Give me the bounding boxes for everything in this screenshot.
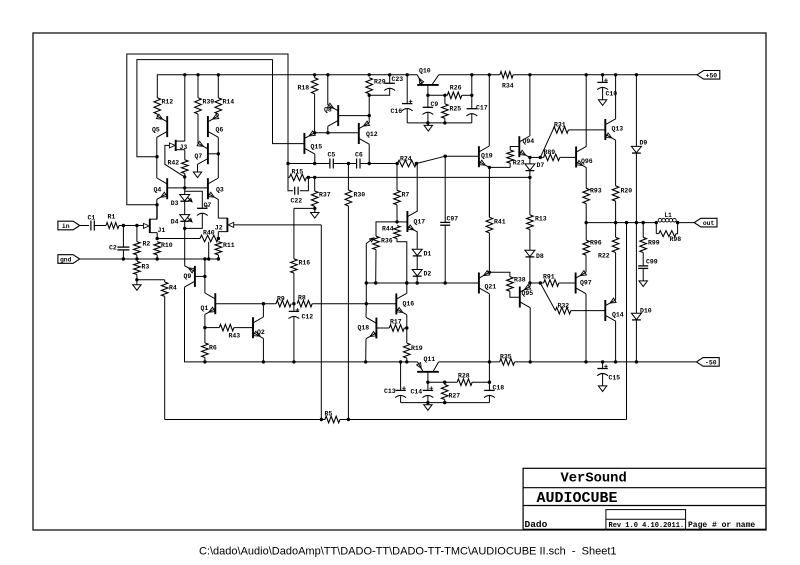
svg-text:R27: R27 xyxy=(449,393,461,400)
svg-text:J2: J2 xyxy=(215,225,223,232)
wire bracket to R16 xyxy=(293,208,295,258)
svg-text:R8: R8 xyxy=(298,295,306,302)
wire R93 to out rail xyxy=(585,204,587,223)
svg-text:Q13: Q13 xyxy=(612,125,624,132)
wire feedback loop W1 (input node to wire A/B column) xyxy=(127,54,288,205)
node Q8 collector xyxy=(326,131,329,134)
resistor R11 xyxy=(215,242,222,255)
junction on lower rail xyxy=(488,360,491,363)
wire Q17 collector to R24 right xyxy=(416,164,418,211)
resistor R24 xyxy=(398,160,417,167)
jfet J2 xyxy=(226,218,228,232)
junction on lower rail xyxy=(405,360,408,363)
junction on wire Y xyxy=(444,281,447,284)
ground below Q7 xyxy=(193,172,201,178)
junction on +50 bus xyxy=(326,73,329,76)
wire R1 to J1 gate xyxy=(119,225,143,227)
wire Q97 collector to rail xyxy=(585,294,587,362)
wire Q10 base xyxy=(427,85,429,95)
resistor R25 xyxy=(444,95,446,104)
wire D7 to wire B xyxy=(529,171,531,178)
capacitor C23 xyxy=(389,75,391,83)
wire C1 to R1 xyxy=(94,225,106,227)
node Q8 base / R29 bottom xyxy=(368,114,371,117)
svg-text:D8: D8 xyxy=(536,253,544,260)
wire R13 to D8 xyxy=(529,230,531,251)
node D7 cathode wire B xyxy=(528,176,531,179)
svg-text:R3: R3 xyxy=(142,264,150,271)
diode D4 xyxy=(180,215,190,221)
resistor R89 xyxy=(544,154,560,161)
svg-text:R38: R38 xyxy=(514,277,526,284)
wire Q21 collector to rail xyxy=(488,294,490,362)
wire Q7 base xyxy=(208,153,218,155)
svg-text:R9: R9 xyxy=(277,296,285,303)
transistor Q11 inline on rail xyxy=(418,362,424,372)
wire output feedback column xyxy=(626,223,628,420)
junction on -50 rail xyxy=(529,360,532,363)
svg-text:R14: R14 xyxy=(223,99,235,106)
capacitor C9 xyxy=(427,95,429,107)
node R42 bottom xyxy=(183,175,186,178)
wire R96 top xyxy=(585,223,587,241)
transistor Q97 xyxy=(575,273,577,294)
node Q19 emitter xyxy=(488,166,491,169)
junction on wire Y xyxy=(405,281,408,284)
node Q9 base xyxy=(203,275,206,278)
title block rev cell separator xyxy=(606,518,686,520)
wire bias filter ground row xyxy=(401,402,490,404)
capacitor C22 parallel loop xyxy=(288,177,293,190)
node Q17 base / R7 bottom xyxy=(395,220,398,223)
node R27 top xyxy=(443,381,446,384)
wire Q16 emitter xyxy=(406,315,408,343)
junction on lower rail xyxy=(262,360,265,363)
resistor R91 xyxy=(544,280,559,287)
wire Q19 collector to bus xyxy=(488,75,490,146)
svg-text:R11: R11 xyxy=(223,242,235,249)
svg-text:C15: C15 xyxy=(609,374,621,381)
svg-text:D3: D3 xyxy=(171,200,179,207)
wire Q8 collector xyxy=(327,126,329,133)
resistor R15 xyxy=(288,176,290,178)
wire Q21 base from wire Y xyxy=(445,282,479,284)
ground below bias filter xyxy=(427,403,429,405)
wire R28 right xyxy=(472,381,489,383)
wire Q12 collector xyxy=(368,144,370,163)
svg-text:R5: R5 xyxy=(325,411,333,418)
wire R30 bottom long xyxy=(347,206,349,420)
jfet J3 xyxy=(175,140,177,151)
svg-text:-50: -50 xyxy=(705,360,717,367)
resistor R93 xyxy=(583,188,590,203)
wire J3 source to R42 xyxy=(184,150,186,160)
wire filter ground row xyxy=(407,122,472,124)
junction on out rail xyxy=(676,221,679,224)
wire Q95 collector to rail xyxy=(529,308,531,362)
node R27 bottom xyxy=(443,401,446,404)
svg-text:Q6: Q6 xyxy=(216,127,224,134)
wire Q94 emitter row xyxy=(530,156,544,158)
resistor R26 xyxy=(447,92,462,99)
junction on lower rail xyxy=(364,360,367,363)
svg-text:R2: R2 xyxy=(143,241,151,248)
svg-text:R35: R35 xyxy=(500,354,512,361)
wire R39 top lead xyxy=(197,75,199,98)
wire A segment xyxy=(333,163,356,165)
port out xyxy=(694,218,717,227)
svg-text:C6: C6 xyxy=(355,152,363,159)
node C14 bottom xyxy=(426,401,429,404)
wire R44 bottom jog xyxy=(397,239,407,283)
wire D3 to D4 xyxy=(184,201,186,214)
resistor R99 xyxy=(642,223,644,238)
wire Q4 emitter to input node xyxy=(156,199,158,219)
resistor R17 xyxy=(389,325,404,332)
wire D9 to out rail xyxy=(635,153,637,223)
junction on +50 bus xyxy=(528,73,531,76)
junction on out rail xyxy=(625,221,628,224)
wire Q95 emitter xyxy=(529,283,531,286)
wire Q13 emitter to R20 xyxy=(615,140,617,186)
wire bias filter row xyxy=(428,381,457,383)
svg-text:R24: R24 xyxy=(400,156,412,163)
diode D7 xyxy=(529,157,531,164)
capacitor C2 xyxy=(122,226,124,247)
capacitor C6 xyxy=(356,159,358,169)
wire R8 to Q16 base xyxy=(312,303,396,305)
wire Q8 base xyxy=(338,115,369,117)
node Q2 collector xyxy=(262,302,265,305)
svg-text:R39: R39 xyxy=(203,99,215,106)
svg-text:Dado: Dado xyxy=(525,519,548,530)
wire R43 to Q2 base xyxy=(234,327,253,329)
wire R7 bottom xyxy=(396,205,398,222)
svg-text:Q14: Q14 xyxy=(612,312,624,319)
wire R18 to Q15 emitter node xyxy=(314,94,316,133)
node Q4 emitter / J1 drain xyxy=(155,203,158,206)
trimmer wiper arrow xyxy=(366,239,373,244)
diode D10 xyxy=(635,223,637,314)
junction on -50 rail xyxy=(614,360,617,363)
svg-text:Q3: Q3 xyxy=(216,187,224,194)
wire R14 top lead xyxy=(217,75,219,98)
svg-text:D4: D4 xyxy=(171,218,179,225)
ground below R37 xyxy=(314,208,316,212)
wire R4 to R5 row xyxy=(164,296,166,419)
junction on gnd wire xyxy=(156,257,159,260)
junction on +50 bus xyxy=(585,73,588,76)
svg-text:R91: R91 xyxy=(543,273,555,280)
transistor Q4 xyxy=(166,178,168,199)
svg-text:J1: J1 xyxy=(158,227,166,234)
svg-text:AUDIOCUBE: AUDIOCUBE xyxy=(537,490,618,507)
svg-text:J3: J3 xyxy=(180,144,188,151)
node C9 bottom xyxy=(426,121,429,124)
node R40 right xyxy=(217,237,220,240)
wire Q5 collector xyxy=(156,137,158,178)
wire J3 gate xyxy=(165,145,185,177)
wire R26 to C17 node xyxy=(445,94,447,96)
node C17 top xyxy=(470,94,473,97)
svg-text:R37: R37 xyxy=(319,192,331,199)
resistor R18 xyxy=(314,75,316,78)
wire D4 to Q9 emitter xyxy=(184,221,186,265)
resistor R27 xyxy=(444,382,446,384)
svg-text:R19: R19 xyxy=(411,345,423,352)
wire Q17 emitter to D1 xyxy=(416,232,418,249)
wire feedback loop W2 (Q5 collector node to Q15 base) xyxy=(137,60,305,157)
wire gnd rail xyxy=(80,258,219,260)
svg-text:Q1: Q1 xyxy=(201,305,209,312)
wire base row C to Q12 xyxy=(315,132,359,134)
capacitor C5 xyxy=(329,159,331,169)
resistor R5 xyxy=(325,416,340,423)
wire out rail xyxy=(586,222,656,224)
svg-text:R40: R40 xyxy=(203,230,215,237)
wire R36 bottom xyxy=(375,250,377,283)
wire R20 to out rail xyxy=(615,201,617,222)
wire R89 to Q96 base xyxy=(560,156,576,158)
diode D1 xyxy=(412,249,422,255)
svg-text:Q94: Q94 xyxy=(523,138,535,145)
wire R31 diagonal xyxy=(540,130,553,158)
wire in xyxy=(80,225,90,227)
svg-text:R93: R93 xyxy=(590,187,602,194)
wire J2 source xyxy=(217,232,219,239)
node R24 right xyxy=(415,162,418,165)
wire R41 to Q21 emitter xyxy=(488,233,490,272)
svg-text:R7: R7 xyxy=(402,192,410,199)
junction on out rail xyxy=(642,221,645,224)
svg-text:R12: R12 xyxy=(162,99,174,106)
wire D1 to D2 xyxy=(416,256,418,270)
svg-text:Rev 1.0 4.10.2011.: Rev 1.0 4.10.2011. xyxy=(609,522,685,530)
transistor Q3 xyxy=(207,178,209,199)
wire Q96 emitter to R93 xyxy=(585,168,587,189)
resistor R29 xyxy=(366,78,373,94)
wire wiper column to Q16 base xyxy=(365,283,367,304)
capacitor C1 xyxy=(90,221,92,231)
inductor L1 coil xyxy=(658,218,662,222)
wire J1 drain xyxy=(156,205,158,219)
wire R31 to Q13 base xyxy=(568,129,605,131)
transistor Q2 xyxy=(252,317,254,338)
resistor R37 xyxy=(314,177,316,191)
wire Q1 emitter xyxy=(204,314,206,327)
transistor Q94 xyxy=(518,136,520,157)
resistor R1 xyxy=(106,223,119,229)
junction on wire Y xyxy=(416,281,419,284)
svg-text:R41: R41 xyxy=(494,218,506,225)
junction on +50 bus xyxy=(470,73,473,76)
wire trimmer wiper xyxy=(365,244,367,284)
svg-text:D1: D1 xyxy=(424,250,432,257)
svg-text:Q9: Q9 xyxy=(184,273,192,280)
wire B main xyxy=(307,176,530,178)
resistor R19 xyxy=(404,343,411,358)
node trimmer column on base wire xyxy=(365,302,368,305)
wire Q19 emitter node xyxy=(488,167,490,217)
svg-text:R22: R22 xyxy=(598,253,610,260)
node diode chain top xyxy=(183,186,186,189)
resistor R35 xyxy=(500,359,515,366)
node input junction R2 xyxy=(135,224,138,227)
node D8 cathode xyxy=(528,281,531,284)
node Q10 base xyxy=(426,94,429,97)
wire out rail to port xyxy=(678,222,695,224)
node R25 bottom xyxy=(443,121,446,124)
wire R37 bottom bracket xyxy=(314,206,316,208)
wire R32 to Q14 base xyxy=(571,310,605,312)
svg-text:Q4: Q4 xyxy=(154,187,162,194)
wire Q13 collector to bus xyxy=(615,75,617,119)
resistor R4 xyxy=(164,280,166,282)
diode D9 xyxy=(635,75,637,147)
resistor R12 xyxy=(154,98,161,114)
junction on +50 bus xyxy=(313,73,316,76)
svg-text:C23: C23 xyxy=(392,76,404,83)
svg-text:R98: R98 xyxy=(670,236,682,243)
wire R22 top xyxy=(615,223,617,238)
node R24 left xyxy=(396,162,399,165)
node Q11 base xyxy=(426,381,429,384)
wire B from rect to R15 xyxy=(287,164,289,178)
node Q1 emitter xyxy=(203,326,206,329)
svg-text:VerSound: VerSound xyxy=(561,471,627,487)
wire Q17 base xyxy=(397,221,407,223)
wire R36 top bracket xyxy=(376,222,397,236)
svg-text:D2: D2 xyxy=(424,270,432,277)
node R37 top xyxy=(313,176,316,179)
svg-text:C14: C14 xyxy=(411,389,423,396)
wire Q1 base row xyxy=(215,303,276,305)
port -50 xyxy=(696,358,719,367)
wire Q18 emitter xyxy=(365,339,367,362)
svg-text:Q12: Q12 xyxy=(366,131,378,138)
wire R23 top to Q94 base xyxy=(510,147,519,151)
ground below filter row xyxy=(427,123,429,126)
title block rev cell box xyxy=(606,510,686,530)
wire emitter to R23 xyxy=(489,166,510,168)
svg-text:C97: C97 xyxy=(447,215,459,222)
capacitor C10 xyxy=(602,75,604,82)
junction on lower rail xyxy=(292,360,295,363)
svg-text:R43: R43 xyxy=(229,333,241,340)
wire Q9 collector to rail xyxy=(185,287,205,362)
wire J3 drain to bus xyxy=(184,75,186,141)
transistor Q21 xyxy=(478,273,480,294)
junction on +50 bus xyxy=(635,73,638,76)
trimmer resistor R36 xyxy=(373,236,380,249)
svg-text:Q2: Q2 xyxy=(257,329,265,336)
svg-text:C18: C18 xyxy=(493,384,505,391)
transistor Q1 xyxy=(214,293,216,314)
wire Q12 emitter xyxy=(368,116,370,123)
wire +50 supply bus xyxy=(157,75,417,98)
svg-text:in: in xyxy=(62,223,70,230)
transistor Q14 xyxy=(604,300,606,321)
wire Q14 emitter to R22 xyxy=(615,253,617,300)
wire R39 to Q7 emitter xyxy=(197,114,199,143)
ground below C99 xyxy=(639,281,647,287)
transistor Q7 xyxy=(207,143,209,164)
svg-text:R32: R32 xyxy=(558,303,570,310)
ground below R3 xyxy=(136,280,138,285)
resistor R44 xyxy=(394,226,401,239)
ground below C10 xyxy=(598,100,606,106)
svg-text:R6: R6 xyxy=(209,345,217,352)
svg-text:Q7: Q7 xyxy=(195,153,203,160)
transistor Q10 inline on bus xyxy=(417,75,423,85)
resistor R7 xyxy=(396,164,398,191)
node Q15 collector on wire A xyxy=(313,162,316,165)
diode D8 xyxy=(525,250,535,256)
wire J2 gate feedback xyxy=(234,224,321,226)
wire gnd column to Q1 collector xyxy=(204,259,206,293)
diode D2 xyxy=(412,270,422,276)
transistor Q17 xyxy=(406,211,408,232)
capacitor C15 xyxy=(602,362,604,368)
resistor R43 xyxy=(205,327,219,329)
ground below C15 xyxy=(598,386,606,392)
node C23 return xyxy=(368,94,371,97)
junction on +50 bus xyxy=(488,73,491,76)
resistor R14 xyxy=(215,98,222,114)
capacitor C16 xyxy=(406,75,408,104)
junction on -50 rail xyxy=(601,360,604,363)
node R89 left / R31 diag xyxy=(539,156,542,159)
svg-text:D10: D10 xyxy=(640,308,652,315)
capacitor C97 xyxy=(444,156,446,222)
junction on out rail xyxy=(614,221,617,224)
wire R40 center tap to gnd xyxy=(208,242,210,259)
jfet J1 xyxy=(149,219,151,233)
wire D2 to wire Y xyxy=(416,276,418,283)
svg-text:Q95: Q95 xyxy=(522,290,534,297)
port gnd xyxy=(58,255,80,264)
wire R25 row xyxy=(428,94,445,96)
wire Q21 emitter to R38 xyxy=(489,272,510,276)
resistor R10 xyxy=(154,242,161,255)
wire R5 to output column xyxy=(340,419,627,421)
resistor R8 xyxy=(297,300,312,307)
resistor R9 xyxy=(276,300,291,307)
node Q19 base / C97 top xyxy=(444,155,447,158)
svg-text:C10: C10 xyxy=(606,91,618,98)
diode D3 xyxy=(184,188,186,195)
transistor Q19 xyxy=(478,146,480,167)
wire Q18 collector xyxy=(365,304,367,318)
junction on +50 bus xyxy=(601,73,604,76)
junction on +50 bus xyxy=(183,73,186,76)
node R40 left xyxy=(156,237,159,240)
svg-text:D7: D7 xyxy=(537,162,545,169)
node R5 left xyxy=(320,418,323,421)
node Q94 emitter xyxy=(528,156,531,159)
wire Q9 base xyxy=(195,275,205,277)
wire Q16 collector xyxy=(406,283,408,293)
wire R38 to Q95 base xyxy=(510,291,520,297)
svg-text:R99: R99 xyxy=(648,239,660,246)
wire R91 to Q97 base xyxy=(559,282,576,284)
svg-text:R13: R13 xyxy=(535,216,547,223)
junction on lower rail xyxy=(203,360,206,363)
wire Q2 collector to Q1 base node xyxy=(262,304,264,317)
resistor R41 xyxy=(488,177,490,217)
svg-text:C5: C5 xyxy=(328,152,336,159)
svg-text:C:\dado\Audio\DadoAmp\TT\DADO-: C:\dado\Audio\DadoAmp\TT\DADO-TT\DADO-TT… xyxy=(199,546,617,558)
